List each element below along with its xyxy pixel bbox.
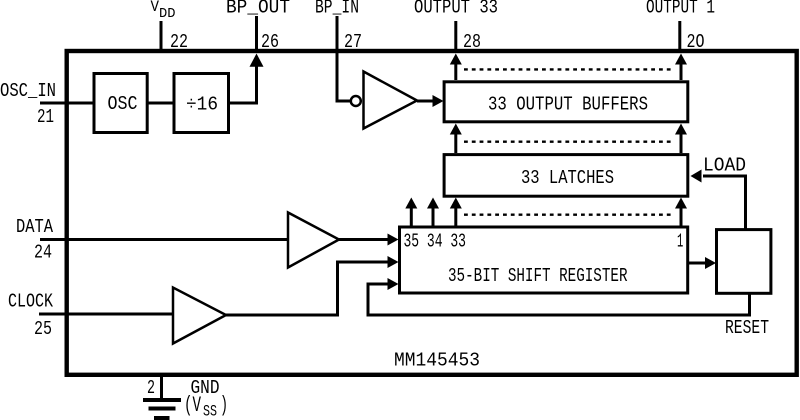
svg-text:BP_OUT: BP_OUT	[226, 0, 290, 19]
arrowhead RESET into SR	[388, 278, 399, 290]
oscillator block OSC	[94, 74, 147, 133]
wire CLOCK buffer to SR	[226, 262, 388, 315]
wire latches to buffers left	[454, 134, 457, 153]
wire OSC to divider	[147, 102, 175, 105]
arrowhead latches to buffers left	[450, 124, 462, 135]
svg-text:1: 1	[677, 231, 683, 253]
arrowhead to BP_OUT node	[250, 54, 264, 67]
pin 20 stub (OUTPUT 1)	[678, 21, 681, 51]
svg-text:LOAD: LOAD	[703, 155, 746, 177]
svg-text:35 34 33: 35 34 33	[404, 231, 467, 253]
wire SR stage 35 to latches	[410, 208, 413, 227]
svg-text:): )	[220, 393, 228, 418]
svg-text:24: 24	[34, 242, 52, 264]
wire LOAD reset box to latches	[703, 176, 746, 229]
arrowhead buffers to OUTPUT 1	[675, 54, 687, 65]
svg-text:25: 25	[34, 318, 52, 340]
wire inverter to output buffers	[417, 100, 433, 103]
svg-text:26: 26	[261, 31, 279, 53]
svg-text:SS: SS	[203, 403, 217, 420]
dashed bus latches to buffers	[464, 140, 674, 142]
wire DATA buffer to SR	[339, 238, 388, 241]
ground symbol	[143, 400, 181, 418]
dashed bus buffers to outputs	[464, 68, 674, 70]
node V_DD label	[151, 0, 176, 22]
svg-text:RESET: RESET	[725, 317, 769, 339]
arrowhead buffers to OUTPUT 33	[450, 54, 462, 65]
inverter bubble U3	[351, 96, 361, 106]
svg-text:22: 22	[170, 31, 188, 53]
pin 2 stub (GND)	[160, 375, 163, 399]
svg-text:DATA: DATA	[16, 216, 53, 238]
svg-text:OSC: OSC	[108, 93, 138, 115]
block 33 LATCHES	[444, 155, 688, 197]
arrowhead SR 33 to latches	[450, 198, 462, 209]
arrowhead into output buffers	[433, 95, 444, 107]
wire SR to reset generator	[689, 262, 705, 265]
buffer U1 (DATA)	[288, 213, 339, 268]
chip outline MM145453	[67, 51, 797, 375]
wire RESET reset box to SR	[368, 284, 750, 315]
svg-text:2: 2	[147, 377, 155, 399]
svg-text:DD: DD	[159, 7, 176, 22]
svg-text:(V: (V	[184, 393, 202, 418]
wire buffers to OUTPUT 33 pin	[454, 64, 457, 80]
wire SR stage 1 to latches	[680, 208, 683, 227]
wire BP_IN to inverter input	[337, 16, 350, 101]
dashed bus SR to latches	[464, 213, 674, 215]
arrowhead SR 35 to latches	[405, 198, 417, 209]
arrowhead SR 34 to latches	[427, 198, 439, 209]
wire buffers to OUTPUT 1 pin	[680, 64, 683, 80]
svg-text:33 LATCHES: 33 LATCHES	[521, 167, 614, 189]
divider block ÷16	[174, 74, 229, 133]
wire CLOCK to buffer	[39, 313, 175, 316]
arrowhead SR to reset generator	[705, 257, 716, 269]
svg-text:CLOCK: CLOCK	[8, 291, 53, 313]
wire latches to buffers right	[680, 134, 683, 153]
wire OSC_IN to OSC	[40, 102, 95, 105]
svg-text:OUTPUT 1: OUTPUT 1	[646, 0, 715, 19]
arrowhead DATA into SR	[388, 234, 399, 246]
svg-text:BP_IN: BP_IN	[315, 0, 359, 19]
arrowhead SR 1 to latches	[675, 198, 687, 209]
svg-text:28: 28	[463, 31, 481, 53]
arrowhead latches to buffers right	[675, 124, 687, 135]
wire divider to BP_OUT	[228, 64, 257, 103]
net VSS label	[184, 393, 228, 420]
block 35-BIT SHIFT REGISTER	[400, 227, 688, 293]
svg-text:÷16: ÷16	[186, 94, 218, 116]
buffer U2 (CLOCK)	[173, 288, 226, 344]
pin 28 stub (OUTPUT 33)	[454, 21, 457, 51]
svg-text:OUTPUT 33: OUTPUT 33	[414, 0, 498, 19]
arrowhead LOAD into latches	[691, 170, 702, 183]
block 33 OUTPUT BUFFERS	[444, 82, 688, 122]
wire SR stage 33 to latches	[454, 208, 457, 227]
svg-text:27: 27	[344, 31, 362, 53]
wire SR stage 34 to latches	[432, 208, 435, 227]
svg-text:33 OUTPUT BUFFERS: 33 OUTPUT BUFFERS	[488, 94, 648, 116]
arrowhead CLOCK into SR	[388, 256, 399, 268]
svg-text:MM145453: MM145453	[394, 350, 480, 372]
pin 26 stub (BP_OUT)	[255, 16, 258, 51]
svg-text:35-BIT SHIFT REGISTER: 35-BIT SHIFT REGISTER	[448, 265, 628, 287]
inverter U3 (BP_IN buffer)	[364, 72, 418, 129]
svg-text:2O: 2O	[687, 31, 705, 53]
svg-text:21: 21	[37, 106, 54, 128]
reset generator block	[717, 230, 771, 294]
pin 22 stub (VDD)	[160, 21, 163, 51]
svg-text:OSC_IN: OSC_IN	[0, 80, 56, 102]
wire DATA to buffer	[40, 238, 290, 241]
